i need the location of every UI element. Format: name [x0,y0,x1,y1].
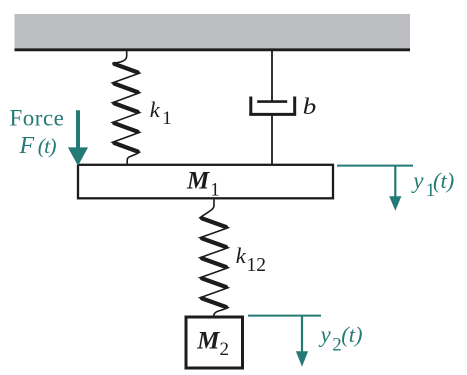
damper cup [249,97,296,115]
svg-text:(t): (t) [341,322,362,347]
force arrow [76,110,80,149]
svg-text:1: 1 [162,108,172,129]
svg-text:y: y [319,322,332,347]
y2 arrow [301,316,303,353]
svg-text:(t): (t) [38,134,57,158]
svg-text:y: y [411,168,424,193]
svg-text:k: k [236,243,247,268]
y1 arrow [394,166,396,198]
svg-text:1: 1 [210,180,220,201]
spring K1 coil thick strokes [114,64,137,152]
y2 reference line [248,315,321,317]
svg-text:F: F [19,133,35,159]
svg-text:M: M [196,327,220,354]
mass M2 box [186,317,243,368]
ceiling bottom edge line [15,48,411,51]
spring K12 thin zigzag [200,200,228,317]
damper rod lower [271,114,273,164]
svg-text:Force: Force [10,105,65,130]
svg-text:M: M [186,168,210,195]
svg-text:k: k [150,97,161,122]
svg-text:b: b [303,94,317,119]
mass M1 box [78,165,333,199]
svg-text:2: 2 [220,339,230,360]
y1 reference line [337,165,413,167]
svg-text:12: 12 [247,255,267,276]
spring K1 thin zigzag [113,49,140,165]
svg-text:(t): (t) [433,168,454,193]
damper rod upper [271,49,273,102]
ceiling bar [15,14,411,49]
spring K12 coil thick strokes [202,218,226,307]
damper piston plate [257,100,287,103]
